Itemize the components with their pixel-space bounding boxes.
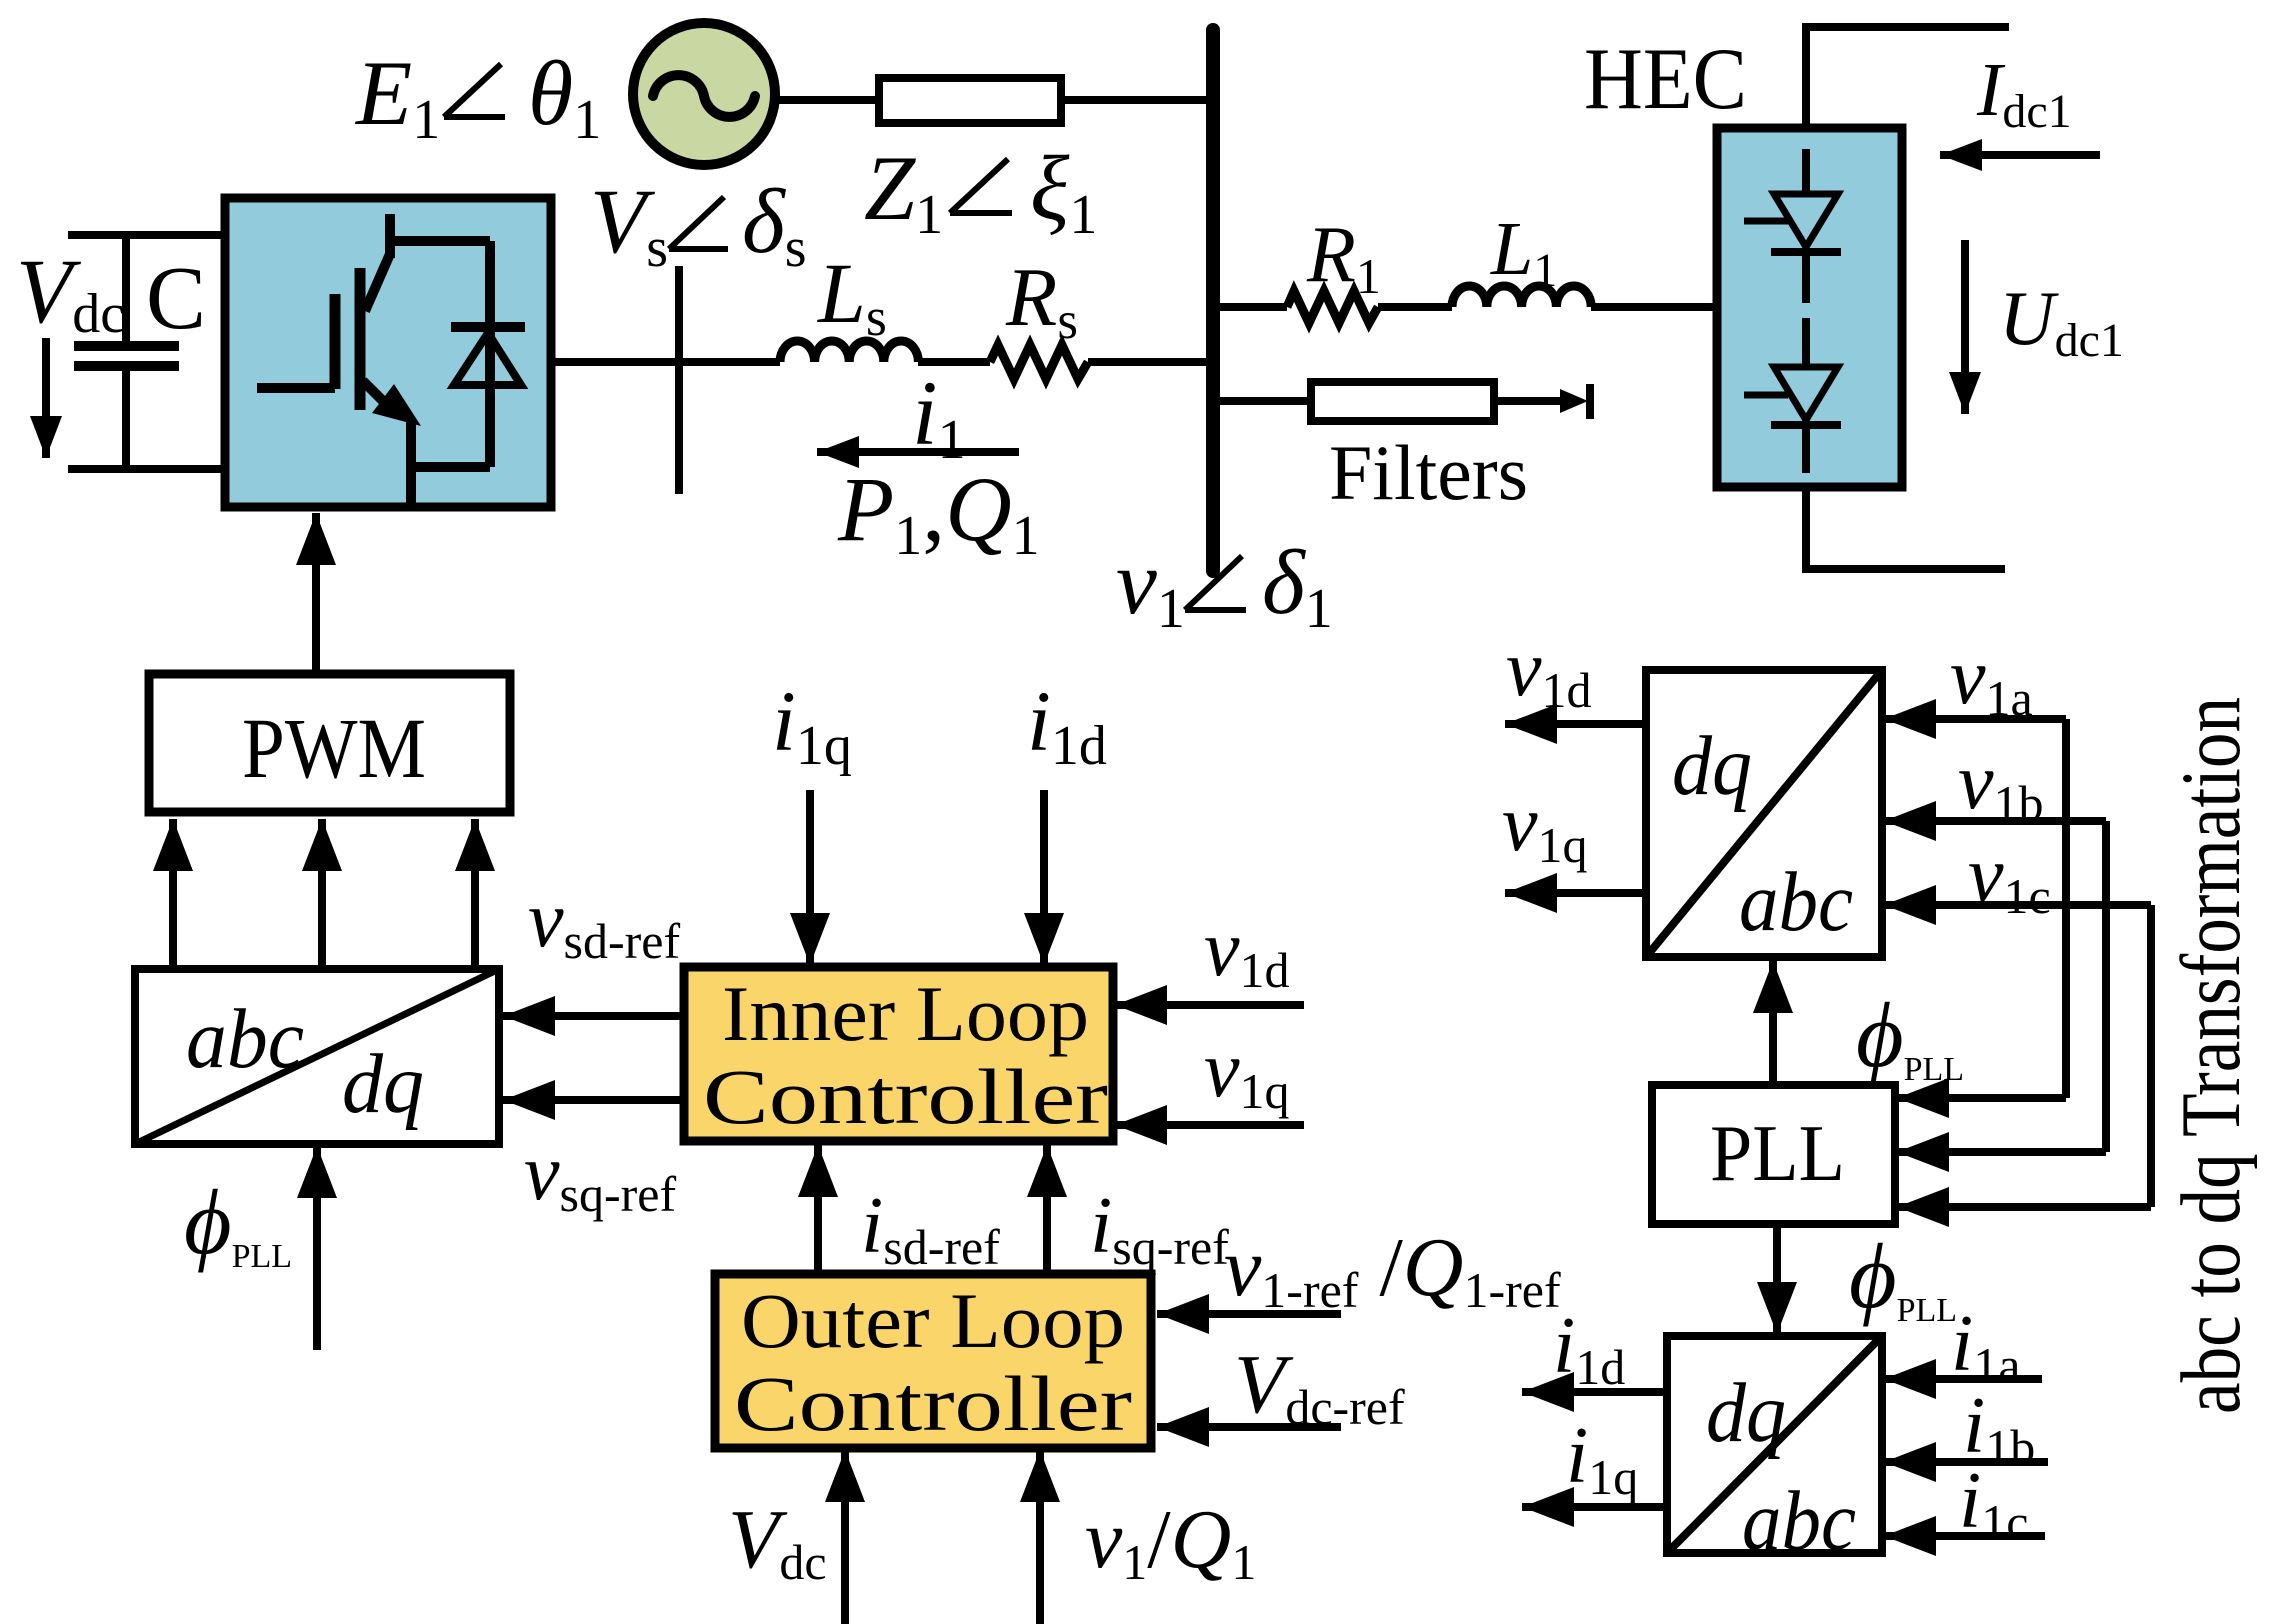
arrow phiPLL into abc-dq (313, 1146, 321, 1350)
wire bus to R1 (1218, 303, 1287, 311)
arrow Idc1 (1940, 151, 2100, 159)
svg-text:dq: dq (1672, 719, 1752, 813)
wire converter ac output (551, 358, 780, 366)
wire Z1 to bus (1061, 96, 1210, 104)
arrow v1q out (1505, 889, 1646, 897)
bus Vs (675, 266, 683, 494)
arrow Vdc-ref into outer (1157, 1423, 1341, 1431)
wire v1c (1884, 905, 2151, 1207)
wire v1b (1884, 821, 2106, 1152)
svg-text:Filters: Filters (1329, 429, 1528, 516)
wire HEC dc top (1806, 27, 2009, 128)
arrow PWM to converter (312, 513, 320, 674)
PLL block (1652, 1085, 1895, 1224)
label Vs angle delta-s (590, 170, 807, 279)
wire dc bottom (68, 465, 225, 473)
svg-text:HEC: HEC (1584, 31, 1747, 128)
arrow inner to abcdq q (503, 1096, 684, 1104)
arrow v1-ref into outer (1157, 1310, 1341, 1318)
inductor Ls (780, 341, 918, 362)
arrow i1q out (1522, 1503, 1667, 1511)
arrow PLL out (1773, 1224, 1781, 1334)
resistor R1 (1287, 291, 1378, 323)
wire Ls to Rs (918, 358, 990, 366)
IGBT Q1 inside converter (257, 214, 490, 505)
voltage source E1 (633, 23, 775, 165)
arrow i1c in (1884, 1532, 2045, 1540)
svg-text:Controller: Controller (703, 1053, 1108, 1140)
wire bus to filters (1218, 397, 1311, 405)
arrow Vdc down (42, 338, 50, 458)
svg-text:abc: abc (186, 992, 304, 1086)
filter box (1311, 382, 1494, 421)
wire Rs to bus (1088, 358, 1210, 366)
arrow i1d out (1522, 1388, 1667, 1396)
arrow i1d into inner (1040, 790, 1048, 965)
wire source to Z1 (775, 96, 879, 104)
Inner Loop Controller block (684, 967, 1113, 1141)
arrow isd-ref outer to inner (814, 1145, 822, 1274)
svg-text:abc to dq Transformation: abc to dq Transformation (2164, 697, 2258, 1414)
svg-text:Inner Loop: Inner Loop (722, 970, 1089, 1057)
dq to abc block bottom right (1667, 1336, 1882, 1568)
resistor Rs (990, 345, 1088, 379)
svg-text:v1/Q1: v1/Q1 (1085, 1493, 1256, 1590)
wire v1a (1884, 719, 2066, 1098)
svg-text:PWM: PWM (242, 700, 426, 796)
arrow v1Q1 into outer (1036, 1450, 1044, 1624)
arrow i1b in (1884, 1458, 2048, 1466)
label Z1 angle xi1 (864, 137, 1097, 246)
Outer Loop Controller block (715, 1274, 1151, 1448)
arrow isq-ref outer to inner (1043, 1145, 1051, 1274)
wire HEC dc bottom (1806, 487, 2005, 569)
label v1 angle delta1 (1116, 531, 1333, 640)
arrow abc-dq to PWM c (471, 819, 479, 969)
arrow v1q into inner (1115, 1121, 1304, 1129)
arrow v1d out (1505, 720, 1646, 728)
arrow i1q into inner (806, 790, 814, 965)
label E1 angle theta1 (354, 42, 601, 151)
arrow phiPLL PLL to dqabc (1769, 961, 1777, 1085)
dq to abc block top right (1646, 670, 1882, 957)
abc to dq block left (135, 969, 499, 1144)
arrow i1a in (1884, 1375, 2042, 1383)
svg-text:dq: dq (342, 1037, 424, 1131)
wire R1 to L1 (1378, 303, 1452, 311)
svg-text:Outer Loop: Outer Loop (741, 1277, 1125, 1364)
svg-text:abc: abc (1742, 1474, 1856, 1568)
capacitor C (74, 235, 179, 469)
freewheeling diode D1 (451, 241, 525, 467)
thyristor T2 (1744, 318, 1841, 473)
svg-text:C: C (146, 249, 206, 348)
arrow abc-dq to PWM a (169, 819, 177, 969)
svg-text:Controller: Controller (734, 1360, 1132, 1447)
wire dc top (68, 231, 225, 239)
wire filters arrow terminator (1494, 384, 1590, 419)
converter VSC block (225, 198, 551, 507)
svg-text:dq: dq (1706, 1366, 1786, 1460)
bus v1 vertical busbar (1206, 30, 1220, 571)
arrow i1 left (817, 448, 1019, 456)
inductor L1 (1452, 286, 1591, 307)
impedance Z1 box (879, 78, 1061, 123)
arrow Vdc into outer (841, 1450, 849, 1624)
arrow inner to abcdq d (503, 1012, 684, 1020)
PWM block (149, 674, 510, 812)
HEC block (1717, 128, 1902, 487)
wire L1 to HEC (1591, 303, 1717, 311)
svg-text:abc: abc (1739, 855, 1853, 949)
thyristor T1 (1744, 149, 1841, 303)
arrow abc-dq to PWM b (318, 819, 326, 969)
svg-text:PLL: PLL (1710, 1110, 1845, 1198)
arrow v1d into inner (1115, 1001, 1304, 1009)
svg-text:P1,Q1: P1,Q1 (837, 458, 1040, 567)
arrow Udc1 down (1961, 240, 1969, 414)
